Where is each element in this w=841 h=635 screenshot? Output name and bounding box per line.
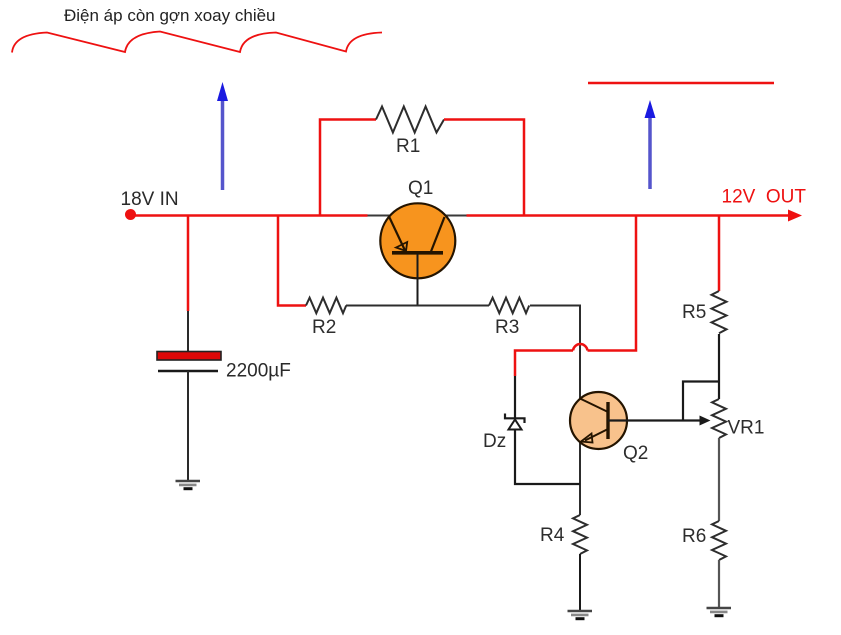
- transistor Q1: [380, 203, 455, 278]
- wire: R5 to VR1 top: [718, 334, 720, 399]
- svg-text:R4: R4: [540, 525, 565, 546]
- wire: Dz top lead (dark): [514, 376, 516, 418]
- resistor R6: [712, 521, 726, 560]
- capacitor C1 top plate: [157, 352, 221, 361]
- wire: output riser to Dz (red, with hop): [588, 216, 637, 351]
- svg-text:VR1: VR1: [728, 418, 765, 439]
- svg-text:R3: R3: [495, 317, 519, 338]
- ground (R4): [568, 611, 593, 619]
- wire: main rail left (red): [131, 214, 368, 217]
- wire: R4 to ground: [579, 554, 581, 611]
- resistor R4: [573, 515, 587, 554]
- potentiometer VR1: [712, 399, 726, 438]
- svg-text:Q1: Q1: [408, 178, 433, 199]
- 12V OUT arrowhead: [788, 210, 802, 222]
- svg-text:R5: R5: [682, 302, 706, 323]
- svg-text:2200µF: 2200µF: [226, 361, 291, 382]
- wire: R2 to R3: [346, 305, 489, 307]
- zener diode Dz: [505, 414, 525, 430]
- svg-text:R2: R2: [312, 317, 336, 338]
- ripple waveform: [12, 32, 382, 53]
- wire: Q2 base lead to VR1 wiper: [608, 419, 701, 421]
- wire: Q1 emitter stub (dark): [368, 215, 391, 217]
- ground (capacitor): [176, 481, 201, 489]
- resistor R5: [712, 291, 727, 333]
- wire: R1 right riser (red): [444, 120, 524, 216]
- svg-text:12V OUT: 12V OUT: [722, 187, 807, 208]
- wire: R2 riser (red): [278, 216, 306, 306]
- resistor R3: [489, 298, 529, 314]
- resistor R1: [376, 107, 444, 133]
- blue arrow left: [217, 82, 228, 190]
- svg-text:Dz: Dz: [483, 431, 506, 452]
- wire: R3 to corner and down to R4: [530, 306, 580, 516]
- wire: capacitor riser (dark part): [187, 311, 189, 352]
- wire: wiper feedback L: [683, 382, 719, 421]
- wire: Q1 collector stub (dark): [445, 215, 467, 217]
- smooth DC line: [588, 82, 774, 85]
- wire: Q1 base lead: [417, 254, 419, 306]
- VR1 wiper arrowhead: [700, 416, 711, 426]
- node: input dot: [125, 209, 136, 220]
- svg-text:R1: R1: [396, 136, 420, 157]
- ground (R6): [707, 608, 732, 616]
- transistor Q2: [570, 392, 627, 449]
- svg-text:18V IN: 18V IN: [121, 189, 179, 210]
- wire: R5 riser (red): [718, 216, 721, 292]
- wire: R1 left riser (red): [320, 120, 376, 216]
- wire: VR1 to R6: [718, 438, 720, 521]
- resistor R2: [306, 298, 346, 314]
- wire: main rail right (red): [467, 214, 793, 217]
- wire: capacitor to ground: [187, 371, 189, 480]
- svg-text:R6: R6: [682, 526, 706, 547]
- capacitor C1 bottom plate: [158, 370, 218, 373]
- svg-text:Điện áp còn gợn xoay chiều: Điện áp còn gợn xoay chiều: [64, 6, 276, 25]
- wire: capacitor riser (red part): [187, 216, 190, 312]
- svg-text:Q2: Q2: [623, 443, 648, 464]
- wire: R6 to ground: [718, 560, 720, 608]
- blue arrow right: [645, 100, 656, 189]
- wire: Dz bottom to Q2 emitter net: [515, 430, 580, 485]
